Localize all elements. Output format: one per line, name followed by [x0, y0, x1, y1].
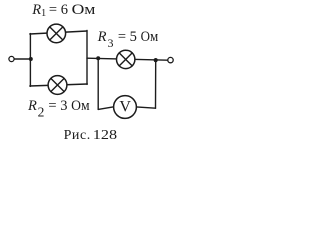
svg-text:128: 128	[93, 128, 117, 143]
svg-text:Ом: Ом	[72, 2, 96, 18]
svg-text:R1 = 6: R1 = 6	[31, 2, 68, 19]
svg-text:V: V	[119, 99, 131, 116]
svg-text:R2 = 3 Ом: R2 = 3 Ом	[27, 98, 90, 119]
svg-text:R3 = 5 Ом: R3 = 5 Ом	[97, 29, 159, 50]
svg-text:Рис.: Рис.	[64, 128, 91, 143]
